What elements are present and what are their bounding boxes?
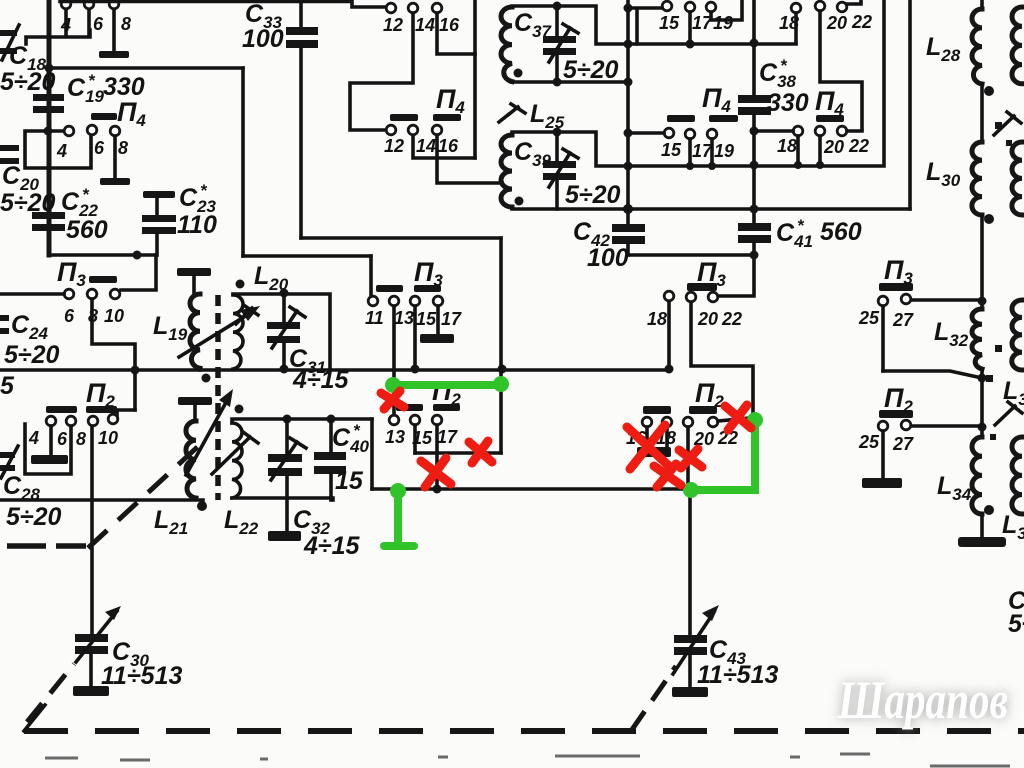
svg-text:27: 27 bbox=[892, 434, 914, 454]
wire: C37 block top rail and right jog bbox=[512, 6, 628, 44]
switch contact group P4 pins 4 6 8 (top left) bbox=[26, 0, 131, 58]
green annotation: corner jumper at P2-right bbox=[683, 412, 763, 498]
oscillator block C37: coil bbox=[501, 7, 523, 82]
switch contact group P4 pins 12 14 16 (top) bbox=[383, 3, 460, 35]
svg-text:10: 10 bbox=[98, 428, 118, 448]
svg-text:6: 6 bbox=[64, 306, 75, 326]
capacitor C28 (trimmer, cut at left edge) bbox=[0, 446, 62, 531]
svg-text:25: 25 bbox=[858, 308, 880, 328]
wire: P3-far pin 25 stem down to y=371 bbox=[881, 306, 885, 371]
switch contact group P4 pins 15 17 19 (top) bbox=[659, 1, 733, 33]
switch P2 left label and bars bbox=[46, 378, 117, 413]
wire: pin19-bottom stem to y=166 bbox=[710, 139, 714, 166]
switch P3 far-right label and bar bbox=[879, 255, 913, 291]
svg-text:8: 8 bbox=[118, 138, 128, 158]
svg-text:Шарапов: Шарапов bbox=[837, 670, 1008, 730]
switch contact group P3 pins 18 20 22 bbox=[647, 291, 742, 329]
wire: C24 to P3-left pin 6 bbox=[0, 292, 64, 296]
capacitor C40 15 bbox=[314, 419, 370, 500]
svg-text:4: 4 bbox=[56, 141, 67, 161]
inductor L32 bbox=[934, 309, 982, 369]
svg-text:20: 20 bbox=[697, 309, 718, 329]
inductor L34 bbox=[937, 437, 994, 515]
wire: top horizontal y=68 from bus to x=243 bbox=[49, 66, 243, 70]
switch P2 far-right label and bar bbox=[879, 383, 913, 418]
svg-text:4÷15: 4÷15 bbox=[303, 532, 361, 560]
svg-text:20: 20 bbox=[826, 13, 847, 33]
green annotation: jumper line y=385 bbox=[385, 376, 509, 393]
svg-text:4: 4 bbox=[28, 428, 39, 448]
switch P3 center label and bars bbox=[376, 257, 443, 292]
svg-text:4: 4 bbox=[60, 15, 71, 35]
node: L21 winding dot bbox=[197, 501, 207, 511]
wire: pin20-bottom stem to y=165 bbox=[818, 136, 822, 165]
wire: pin16-top elbow to main riser x=475 bbox=[437, 13, 475, 54]
wire: P2-right pin 20 stem to bottom rail bbox=[686, 427, 690, 489]
wire: bottom rail y=489 bbox=[372, 487, 690, 491]
capacitor C41 560 bbox=[718, 216, 862, 296]
wire: P3-left pin 8 down/right/down to long bus bbox=[92, 299, 135, 410]
svg-text:5÷20: 5÷20 bbox=[565, 181, 621, 209]
node: junction long bus / P3 pin15 drop bbox=[411, 365, 420, 374]
svg-text:4÷15: 4÷15 bbox=[292, 366, 350, 394]
svg-text:15: 15 bbox=[416, 309, 437, 329]
switch contact group P3 pins 6 8 10 bbox=[64, 289, 124, 326]
svg-text:15: 15 bbox=[659, 13, 680, 33]
svg-text:10: 10 bbox=[104, 306, 124, 326]
svg-text:8: 8 bbox=[76, 429, 86, 449]
svg-text:560: 560 bbox=[820, 218, 862, 246]
svg-text:5÷: 5÷ bbox=[1008, 610, 1024, 638]
partial transformer winding right edge fourth bbox=[1012, 437, 1022, 514]
wire: pin17-top stem bbox=[688, 12, 692, 44]
wire: C37 block bottom rail y=82 bbox=[512, 80, 628, 84]
wire: P2-far pin27 to L34 top bbox=[911, 424, 982, 428]
svg-text:14: 14 bbox=[416, 136, 436, 156]
wire: C18/C19/C22 main bus vertical x=49 bbox=[47, 0, 52, 255]
switch P4 mid-right label and bars bbox=[667, 83, 738, 122]
wire: P2-right pins 16/18 stems with terminal bar bbox=[637, 427, 671, 457]
wire: L34 bottom stem to chassis bar bbox=[980, 514, 984, 537]
svg-text:18: 18 bbox=[647, 309, 667, 329]
switch contact group P2 pins 16 18 20 22 bbox=[626, 417, 738, 449]
svg-text:11: 11 bbox=[365, 308, 384, 328]
watermark Sharapov bbox=[837, 670, 1008, 730]
capacitor C42 100 bbox=[573, 218, 645, 272]
switch contact group P2 pins 13 15 17 bbox=[385, 415, 458, 448]
trimmer capacitor C31 4-15 bbox=[267, 293, 350, 394]
wire: pin20-top path to pin22-bottom bbox=[820, 11, 862, 129]
svg-text:6: 6 bbox=[94, 138, 105, 158]
svg-text:22: 22 bbox=[721, 309, 742, 329]
svg-text:17: 17 bbox=[437, 427, 458, 447]
red X annotation large on P2-right pins 16/18 bbox=[627, 425, 670, 469]
switch contact group P3 pins 25 27 bbox=[858, 294, 914, 330]
wire: main vertical x=628 bbox=[626, 0, 630, 224]
svg-text:19: 19 bbox=[713, 13, 733, 33]
inductor L28 bbox=[926, 0, 994, 96]
node: junction bus/top wire bbox=[45, 64, 54, 73]
red X annotation on P2-right pin20 stem bbox=[679, 449, 702, 468]
red X annotation on bottom rail left of pin20 bbox=[654, 464, 681, 487]
wire: C40 block right edge to bottom rail bbox=[370, 419, 374, 489]
wire: vertical x=501 down through long bus to P2 row bbox=[499, 238, 503, 453]
wire: pin18-bottom stem to y=165 bbox=[796, 136, 800, 165]
svg-text:13: 13 bbox=[385, 427, 405, 447]
svg-text:17: 17 bbox=[692, 141, 713, 161]
node: junction long bus / C33 branch bbox=[498, 365, 507, 374]
node: junctions on x=754 bbox=[750, 39, 759, 214]
svg-text:110: 110 bbox=[177, 211, 217, 239]
wire: pin15-bottom tie to x=628 bbox=[628, 131, 664, 135]
svg-text:5÷20: 5÷20 bbox=[4, 341, 60, 369]
svg-text:15: 15 bbox=[661, 140, 682, 160]
wire: P2-center pin 15 elbow to y=453 bbox=[413, 425, 417, 453]
switch P3 right label and bar bbox=[687, 257, 726, 291]
red X annotation on P3-P2 pin13 link bbox=[381, 391, 404, 409]
inductor L20 bbox=[233, 262, 289, 369]
wire: C39 block top rail and right jog to y=166 bbox=[512, 132, 628, 166]
wire: L32 bottom to junction with return wire bbox=[980, 369, 984, 437]
partial transformer winding right edge top bbox=[1012, 7, 1022, 84]
svg-text:18: 18 bbox=[777, 136, 797, 156]
switch label P4 with bar (second group) bbox=[91, 97, 146, 130]
svg-text:8: 8 bbox=[121, 14, 131, 34]
wire: pin16-bottom drop to C39 coil bbox=[437, 135, 502, 183]
svg-text:25: 25 bbox=[858, 432, 880, 452]
wire: P2-left pin 4 stem with terminal bar bbox=[31, 426, 68, 464]
wire: C39 block bottom rail continuing as long line y=209 bbox=[512, 207, 910, 209]
switch contact group P4 pins 4 6 8 (second) bbox=[25, 125, 130, 185]
svg-text:5÷20: 5÷20 bbox=[563, 56, 619, 84]
wire: bus bottom y=255 to C23 stem bbox=[49, 253, 156, 257]
switch contact group P3 pins 11 13 15 17 bbox=[365, 296, 462, 329]
wire: y=255 link C42 to C41 bbox=[628, 253, 754, 257]
red X annotation on P2-right pin22 link bbox=[725, 405, 751, 430]
small core-tuning arrow on L20 bbox=[236, 306, 258, 324]
oscillator block C39: coil bbox=[501, 135, 524, 207]
switch P4 mid label and bars bbox=[390, 84, 465, 121]
transformer core dashed line L19/L20 L21/L22 bbox=[215, 295, 221, 500]
capacitor C20 (trimmer, cut at left edge) bbox=[0, 145, 56, 217]
svg-text:14: 14 bbox=[415, 15, 435, 35]
wire: P3-center pin 13 drop to P2 pin 13 bbox=[392, 306, 396, 415]
wire: y=238 horizontal C33 to x=500 drop bbox=[301, 236, 501, 240]
wire: long horizontal bus y=370 bbox=[0, 368, 669, 372]
switch contact group P2 pins 4 6 8 10 bbox=[28, 414, 118, 449]
svg-text:16: 16 bbox=[439, 15, 460, 35]
svg-text:560: 560 bbox=[66, 216, 108, 244]
wire: P2-left pin 8 long drop to C30 bbox=[90, 426, 94, 635]
wire: return wire y=372 to P3-far pin 25 bbox=[883, 371, 982, 378]
capacitor C24 (cut at left edge) bbox=[0, 311, 60, 369]
node: junction C32 top bbox=[283, 415, 292, 424]
wire: drop from bottom rail to C43 bbox=[688, 490, 692, 636]
svg-text:27: 27 bbox=[892, 310, 914, 330]
switch contact group P2 pins 25 27 bbox=[858, 420, 914, 454]
switch contact group P4 pins 12 14 16 (bottom) bbox=[384, 125, 459, 156]
capacitor C22 560 bbox=[32, 185, 108, 244]
svg-text:22: 22 bbox=[851, 12, 872, 32]
wire: y=166 horizontal x628-884 riser bbox=[628, 0, 884, 166]
wire: y=44 horizontal x628-796 bbox=[628, 42, 796, 46]
node: junctions on y=165 right bbox=[794, 161, 824, 169]
wire: L22 top to C40 block top rail y=419 bbox=[232, 419, 372, 423]
variable capacitor C30 11-513 bbox=[73, 606, 182, 696]
wire: pin18-bottom tie to x=754 bbox=[758, 129, 793, 133]
svg-text:5÷20: 5÷20 bbox=[6, 503, 62, 531]
inductor L22 bbox=[224, 405, 259, 539]
svg-text:330: 330 bbox=[767, 89, 809, 117]
wire: main riser x=475 top bbox=[473, 0, 477, 158]
wire: P3-center pin 17 stem with terminal bar bbox=[420, 306, 454, 343]
wire: short link to P2-left pin 10 bbox=[117, 410, 135, 416]
svg-text:22: 22 bbox=[848, 136, 869, 156]
wire: pin14-bottom stem to y=158 bbox=[413, 135, 475, 158]
faint scan dashes at bottom edge bbox=[45, 754, 1010, 766]
switch contact group P4 pins 18 20 22 (top) bbox=[779, 1, 872, 33]
svg-text:11÷513: 11÷513 bbox=[697, 661, 778, 689]
wire: right column vertical L30 to L32 bbox=[980, 215, 984, 309]
core tuning symbol between L28/L30 bbox=[994, 112, 1021, 146]
node: junction C40 top bbox=[327, 415, 336, 424]
variable coupling arrow across L21 bbox=[186, 389, 233, 475]
ground chassis bar bbox=[958, 537, 1006, 547]
trimmer capacitor C39 5-20 bbox=[514, 132, 621, 209]
svg-text:17: 17 bbox=[441, 309, 462, 329]
node: junction C37 stem top bbox=[553, 2, 562, 11]
capacitor C18 (trimmer, cut at left edge) bbox=[0, 25, 56, 96]
wire: pin19-top elbow up bbox=[711, 0, 742, 20]
svg-text:12: 12 bbox=[383, 15, 403, 35]
node: junction long bus / P3 pin8 drop bbox=[131, 366, 140, 375]
green annotation: ground mark at bottom rail bbox=[384, 483, 414, 546]
svg-text:6: 6 bbox=[57, 429, 68, 449]
switch P2 right label and bars bbox=[643, 378, 724, 414]
wire: P3-far pin27 to L32 top bbox=[911, 298, 982, 302]
wire: pin18-top stem to y=43 bbox=[794, 13, 798, 43]
svg-text:19: 19 bbox=[714, 141, 734, 161]
wire: pin15-top tie to x=628 bbox=[628, 8, 662, 44]
node: junction bottom rail right end bbox=[686, 486, 695, 495]
inductor L25 label with tuning arrow bbox=[499, 100, 565, 132]
svg-text:20: 20 bbox=[823, 137, 844, 157]
node: junction C31 bottom bbox=[280, 365, 289, 374]
wire: left bus y=500 to L21 bottom bbox=[0, 498, 203, 502]
wire: pin14-top drop and jog to pin12-bottom bbox=[350, 13, 413, 130]
wire: P2-left pin 6 loop via C28 bbox=[25, 424, 71, 474]
switch contact group P4 pins 15 17 19 (bottom) bbox=[661, 128, 734, 161]
svg-text:15: 15 bbox=[335, 467, 364, 495]
node: junctions on y=166 bbox=[686, 162, 716, 170]
trimmer capacitor C32 4-15 bbox=[268, 419, 361, 560]
wire: right column vertical between L28 and L30 bbox=[980, 84, 984, 142]
svg-text:100: 100 bbox=[242, 25, 284, 53]
wire: y=453 horizontal to P2-center pins bbox=[415, 451, 501, 455]
node: junction pin17/y44 bbox=[686, 40, 695, 49]
wire: riser x=910 to long line y=209 bbox=[908, 0, 912, 209]
wire: L22 bottom rail y=498 to C32 stem bbox=[232, 498, 333, 500]
wire: P3-right pin20 path down right down bbox=[691, 302, 753, 416]
inductor L21 with top terminal bbox=[154, 397, 212, 538]
switch P4 right label and bar bbox=[815, 86, 844, 122]
wire: C23 stem down and over to P3-left pin 10 bbox=[121, 255, 156, 290]
switch P3 left label and bar bbox=[57, 257, 117, 290]
svg-text:6: 6 bbox=[93, 14, 104, 34]
variable capacitor C43 11-513 bbox=[672, 605, 778, 697]
switch P2 center label and bars bbox=[396, 376, 461, 411]
wire: top edge feed to P4 pin 12 bbox=[60, 2, 385, 8]
wire: pin17-bottom stem to y=166 bbox=[688, 139, 692, 166]
dashed gang line bottom bbox=[7, 440, 1024, 731]
svg-text:5: 5 bbox=[0, 372, 15, 400]
node: junction C31 top bbox=[280, 289, 289, 298]
small core-tuning arrow on L22 bbox=[212, 432, 258, 474]
inductor L30 bbox=[926, 142, 994, 224]
wire: vertical x=243 down to y=256 bbox=[241, 68, 245, 256]
node: junction L32 bottom bbox=[978, 374, 987, 383]
svg-text:100: 100 bbox=[587, 244, 629, 272]
svg-text:13: 13 bbox=[394, 308, 414, 328]
trimmer capacitor C37 5-20 bbox=[514, 6, 619, 84]
node: junction pin17/bottom wire bbox=[433, 485, 442, 494]
capacitor C19 330 bbox=[33, 71, 145, 113]
red X annotation on P2-center pin17 drop bbox=[421, 458, 451, 487]
svg-text:11÷513: 11÷513 bbox=[101, 662, 182, 690]
wire: P3-right pin18 stem to long bus bbox=[667, 302, 671, 369]
inductor L19 with top terminal bbox=[153, 268, 211, 383]
wire: pin22-top tie to top edge bbox=[847, 0, 861, 4]
node: junction C37 stem bottom bbox=[553, 78, 562, 87]
capacitor C23 110 with top terminal bbox=[142, 181, 217, 255]
node: junction L32 top feed bbox=[978, 297, 987, 306]
capacitor C38 330 bbox=[738, 56, 809, 117]
wire: main vertical x=754 top section bbox=[752, 0, 756, 95]
svg-text:12: 12 bbox=[384, 136, 404, 156]
node: junctions on x=628 bbox=[623, 4, 633, 215]
red X annotation on y=453 link bbox=[469, 441, 492, 463]
wire: P3-center pin 15 drop to long bus bbox=[413, 306, 417, 369]
wire: main vertical x=754 mid section bbox=[752, 115, 756, 223]
wire: vertical x=371 down to switch P3 pin 11 bbox=[369, 256, 373, 295]
wire: P2-far pin 25 stem with terminal bar bbox=[862, 431, 902, 488]
wire: pin22-bottom link right bbox=[847, 129, 862, 133]
node: junction pin18/long bus bbox=[665, 365, 674, 374]
partial transformer winding right edge third bbox=[1012, 300, 1022, 370]
wire: L20/C31 tank top rail y=293 and right edge bbox=[233, 294, 330, 369]
wire: P2-right pin 22 link right bbox=[718, 418, 750, 421]
partial transformer winding right edge second bbox=[1012, 142, 1022, 215]
node: junction C39 stem top bbox=[553, 128, 562, 137]
switch contact group P4 pins 18 20 22 (bottom) bbox=[777, 126, 869, 157]
node: junction y=255 bbox=[133, 251, 142, 260]
wire: P2-center pin 17 drop to bottom wire bbox=[435, 425, 439, 489]
svg-text:5÷20: 5÷20 bbox=[0, 68, 56, 96]
variable coupling arrow across L19/L20 bbox=[179, 306, 260, 357]
wire: horizontal y=256 to pin11 drop bbox=[243, 254, 371, 258]
node: junction L34 top feed bbox=[978, 423, 987, 432]
svg-text:16: 16 bbox=[438, 136, 459, 156]
capacitor C33 100 bbox=[242, 0, 318, 238]
core tuning symbol right edge mid bbox=[986, 345, 1022, 440]
